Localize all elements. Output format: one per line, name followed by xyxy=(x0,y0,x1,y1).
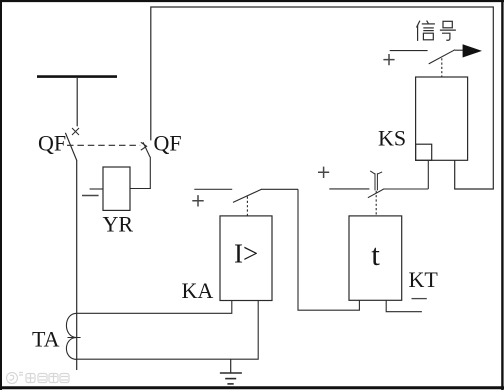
linkage arrow head xyxy=(141,142,147,150)
contact KS (signal contact blade) xyxy=(429,50,455,64)
wire KS coil to negative bus (right, top, down to QF aux) xyxy=(151,7,494,189)
watermark xyxy=(7,373,70,384)
svg-text:KS: KS xyxy=(378,125,406,150)
svg-text:I>: I> xyxy=(234,239,258,269)
contact KA (normally open blade) xyxy=(233,189,262,202)
wire plus to KS contact xyxy=(390,50,428,52)
time relay KT coil box xyxy=(349,216,402,300)
signal arrow xyxy=(463,44,482,57)
label 信号 (signal) drawn as strokes xyxy=(417,21,456,41)
mechanical linkage (dashed) xyxy=(67,144,140,146)
contact KT (time-delay closing contact) xyxy=(368,171,384,198)
wire QF aux to YR coil xyxy=(130,157,150,189)
plus terminal (KA contact branch) xyxy=(192,195,203,206)
plus terminal (KT contact branch) xyxy=(318,167,329,178)
linkage KA coil to contact (dotted) xyxy=(246,197,248,216)
wire KA contact to node xyxy=(261,188,298,190)
svg-text:QF: QF xyxy=(154,131,182,156)
signal relay KS coil box xyxy=(416,77,468,160)
minus terminal (KT) xyxy=(412,298,427,300)
svg-text:KA: KA xyxy=(182,278,214,303)
wire TA secondary bottom to KA coil xyxy=(77,301,259,360)
wire KS coil left pin xyxy=(427,160,429,189)
trip coil YR box xyxy=(103,167,130,210)
svg-text:YR: YR xyxy=(103,212,134,237)
minus terminal (YR) xyxy=(82,195,99,197)
svg-text:t: t xyxy=(371,237,380,272)
wire plus to KA contact xyxy=(194,188,232,190)
wire KA contact to KT coil xyxy=(298,189,359,310)
wire KT coil to minus terminal xyxy=(386,300,422,311)
wire KS contact to arrow xyxy=(455,49,464,51)
svg-text:TA: TA xyxy=(32,326,60,351)
wire QF to TA primary xyxy=(76,160,78,370)
wire YR coil to minus terminal xyxy=(90,188,103,190)
relay KA coil box (I>) xyxy=(220,216,272,301)
wire KT contact to KS coil xyxy=(384,188,429,190)
svg-text:QF: QF xyxy=(38,131,66,156)
wire busbar to QF xyxy=(76,77,78,126)
linkage KS coil to contact (dotted) xyxy=(441,58,443,77)
svg-text:KT: KT xyxy=(409,267,439,292)
wire plus to KT delayed contact xyxy=(329,188,369,190)
linkage KT coil to contact (dotted) xyxy=(375,191,377,216)
current transformer TA (secondary winding arcs) xyxy=(66,313,80,359)
auxiliary contact QF (blade) xyxy=(143,142,150,157)
wire TA secondary top to KA coil xyxy=(77,301,232,314)
busbar xyxy=(37,75,117,78)
plus terminal (KS contact branch) xyxy=(383,54,394,65)
circuit breaker QF (primary contact, x mark and blade) xyxy=(65,128,79,160)
ground xyxy=(220,359,242,384)
